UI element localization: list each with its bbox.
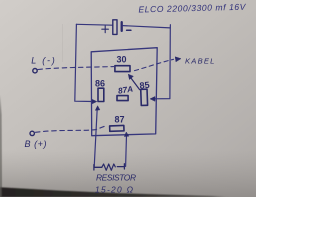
- svg-text:KABEL: KABEL: [185, 57, 215, 66]
- svg-text:15-20 Ω: 15-20 Ω: [95, 185, 134, 195]
- dark table edge at bottom: [0, 187, 230, 197]
- dashed wire L(-) to pin 30 / kabel: [38, 67, 114, 70]
- internal contact arrow 85 to 30: [130, 77, 139, 90]
- arrowhead to kabel: [175, 57, 181, 62]
- pin 87A terminal: [117, 96, 128, 101]
- capacitor C1 (elco) plates: [113, 20, 122, 35]
- wire pin 87 down to resistor: [125, 135, 128, 167]
- arrowhead into pin 85: [150, 97, 155, 102]
- dashed wire B(+) to pin 87: [36, 126, 107, 133]
- svg-text:RESISTOR: RESISTOR: [96, 173, 136, 183]
- dark left paper edge: [0, 95, 2, 197]
- paper crease: [62, 24, 64, 62]
- resistor R1 leads and ticks: [94, 164, 125, 170]
- svg-text:L (-): L (-): [31, 55, 55, 65]
- capacitor C1 minus sign: [127, 29, 131, 31]
- svg-text:87: 87: [114, 114, 124, 124]
- wire top-right horizontal: [123, 26, 170, 28]
- arrowhead up into pin 87 bottom: [124, 132, 128, 136]
- arrowhead up into pin 86 bottom: [95, 106, 99, 110]
- pin 87 terminal: [110, 125, 124, 131]
- paper background: [0, 0, 256, 197]
- wire right vertical down to pin 85: [154, 25, 170, 99]
- resistor R1 zigzag: [102, 164, 116, 170]
- wire left vertical down to pin 86: [75, 24, 93, 101]
- arrowhead into pin 86: [92, 99, 97, 104]
- capacitor C1 (elco) plus sign: [102, 26, 109, 33]
- svg-text:B (+): B (+): [25, 139, 47, 149]
- svg-text:30: 30: [116, 54, 126, 64]
- pin 86 terminal: [98, 88, 104, 101]
- wire pin 86 down to resistor: [94, 109, 97, 167]
- pin 30 terminal: [115, 66, 130, 72]
- node L(-) terminal circle: [33, 69, 37, 73]
- relay box outline: [91, 48, 157, 136]
- pin 85 terminal: [141, 89, 148, 105]
- svg-text:86: 86: [95, 79, 105, 89]
- wire top-left horizontal: [76, 23, 112, 26]
- node B(+) terminal circle: [30, 131, 34, 135]
